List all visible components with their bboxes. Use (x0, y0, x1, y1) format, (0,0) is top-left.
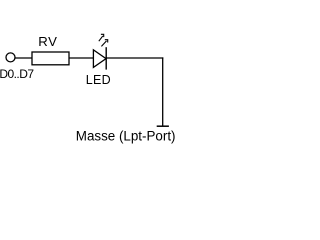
ground terminal bar (Masse) (157, 125, 169, 127)
wire (162, 57, 164, 126)
LED cathode bar (105, 47, 107, 69)
wire (69, 57, 93, 59)
svg-text:D0..D7: D0..D7 (0, 67, 34, 81)
LED light emission arrow 1 (99, 34, 104, 41)
wire (106, 57, 163, 59)
terminal pin D0..D7 (6, 53, 15, 62)
LED light emission arrow 2 (101, 40, 107, 47)
svg-text:LED: LED (86, 73, 111, 87)
svg-text:Masse (Lpt-Port): Masse (Lpt-Port) (76, 128, 176, 143)
svg-text:RV: RV (38, 34, 57, 49)
LED anode triangle (93, 50, 106, 68)
wire (15, 57, 32, 59)
resistor RV (32, 52, 69, 65)
